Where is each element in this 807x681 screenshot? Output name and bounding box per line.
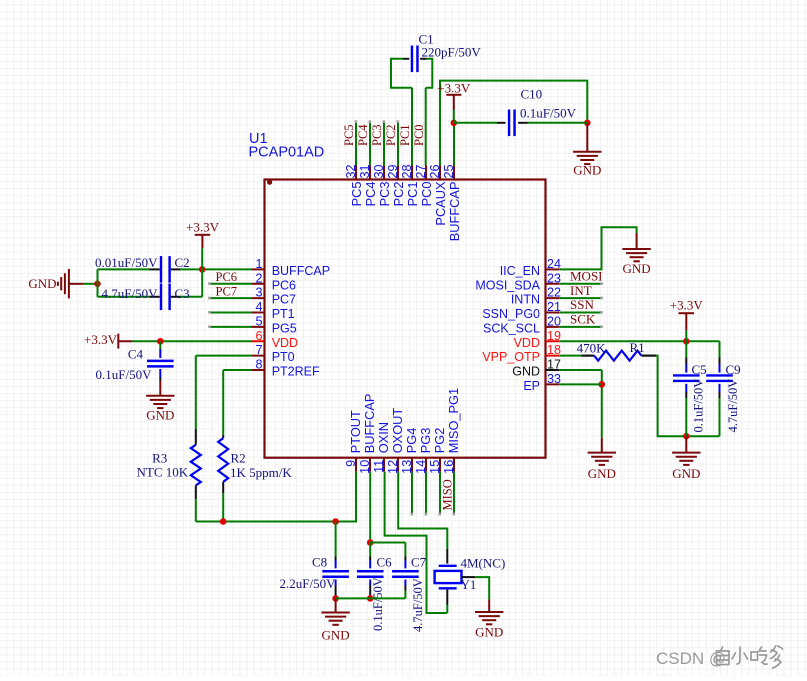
svg-text:18: 18: [547, 343, 561, 357]
svg-text:C7: C7: [411, 555, 427, 570]
svg-text:3: 3: [255, 286, 262, 300]
svg-text:VPP_OTP: VPP_OTP: [482, 350, 540, 364]
svg-text:PG4: PG4: [404, 428, 419, 454]
svg-text:SSN_PG0: SSN_PG0: [482, 307, 540, 321]
svg-text:GND: GND: [146, 408, 174, 423]
svg-text:PC2: PC2: [391, 182, 406, 207]
svg-text:0.1uF/50V: 0.1uF/50V: [96, 367, 153, 382]
svg-text:Y1: Y1: [461, 577, 477, 592]
svg-text:SCK_SCL: SCK_SCL: [483, 321, 540, 335]
svg-text:2.2uF/50V: 2.2uF/50V: [280, 576, 337, 591]
svg-text:GND: GND: [322, 628, 350, 643]
svg-text:26: 26: [428, 164, 442, 178]
svg-text:PTOUT: PTOUT: [348, 410, 363, 453]
svg-text:0.01uF/50V: 0.01uF/50V: [95, 255, 158, 270]
svg-text:C8: C8: [312, 555, 327, 570]
svg-text:PC1: PC1: [398, 124, 412, 146]
svg-text:4M(NC): 4M(NC): [461, 556, 506, 571]
svg-text:C4: C4: [128, 347, 144, 362]
svg-text:PG3: PG3: [418, 428, 433, 454]
svg-text:GND: GND: [573, 163, 601, 178]
svg-text:28: 28: [400, 164, 414, 178]
svg-text:VDD: VDD: [272, 336, 298, 350]
svg-text:R2: R2: [231, 450, 246, 465]
svg-text:IIC_EN: IIC_EN: [500, 264, 540, 278]
svg-text:PC6: PC6: [272, 278, 296, 292]
svg-text:GND: GND: [512, 365, 540, 379]
svg-text:PC2: PC2: [384, 124, 398, 146]
svg-text:0.1uF/50V: 0.1uF/50V: [692, 379, 706, 433]
svg-text:PT0: PT0: [272, 350, 295, 364]
svg-text:11: 11: [372, 460, 386, 473]
svg-text:PC4: PC4: [363, 182, 378, 207]
svg-text:VDD: VDD: [514, 336, 540, 350]
svg-text:31: 31: [358, 164, 372, 178]
svg-text:0.1uF/50V: 0.1uF/50V: [520, 106, 577, 121]
svg-text:MISO: MISO: [441, 479, 455, 510]
svg-text:PC0: PC0: [412, 124, 426, 146]
svg-text:0.1uF/50V: 0.1uF/50V: [371, 577, 385, 631]
svg-text:OXOUT: OXOUT: [390, 408, 405, 454]
svg-text:BUFFCAP: BUFFCAP: [362, 394, 377, 454]
svg-text:BUFFCAP: BUFFCAP: [447, 182, 462, 242]
svg-text:22: 22: [547, 286, 561, 300]
svg-text:GND: GND: [623, 261, 651, 276]
svg-text:25: 25: [442, 164, 456, 178]
svg-text:C9: C9: [726, 362, 741, 377]
svg-text:PT2REF: PT2REF: [272, 365, 320, 379]
svg-text:INT: INT: [570, 283, 592, 298]
svg-text:C10: C10: [521, 87, 543, 102]
svg-text:PC5: PC5: [349, 182, 364, 207]
svg-text:4.7uF/50V: 4.7uF/50V: [726, 379, 740, 433]
svg-text:EP: EP: [523, 379, 540, 393]
svg-text:+3.3V: +3.3V: [84, 332, 118, 347]
svg-text:+3.3V: +3.3V: [186, 219, 220, 234]
svg-text:GND: GND: [28, 276, 56, 291]
svg-text:INTN: INTN: [511, 293, 540, 307]
svg-text:+3.3V: +3.3V: [437, 81, 471, 96]
svg-text:MISO_PG1: MISO_PG1: [446, 388, 461, 453]
svg-text:9: 9: [344, 460, 358, 467]
svg-text:32: 32: [344, 164, 358, 178]
svg-text:C3: C3: [175, 286, 190, 301]
svg-text:PCAUX: PCAUX: [433, 181, 448, 226]
svg-text:GND: GND: [475, 625, 503, 640]
svg-text:SSN: SSN: [570, 297, 594, 312]
svg-text:5: 5: [255, 314, 262, 328]
svg-text:2: 2: [255, 271, 262, 285]
svg-text:19: 19: [547, 329, 561, 343]
svg-text:OXIN: OXIN: [376, 422, 391, 453]
svg-text:+3.3V: +3.3V: [670, 298, 704, 313]
svg-text:7: 7: [255, 343, 262, 357]
svg-text:33: 33: [547, 372, 561, 386]
svg-text:C5: C5: [692, 362, 707, 377]
svg-text:21: 21: [547, 300, 561, 314]
svg-text:1: 1: [255, 257, 262, 271]
svg-text:PC3: PC3: [370, 124, 384, 146]
svg-text:C6: C6: [377, 555, 393, 570]
svg-text:8: 8: [255, 358, 262, 372]
svg-text:MOSI: MOSI: [570, 268, 603, 283]
svg-text:4.7uF/50V: 4.7uF/50V: [411, 578, 425, 632]
svg-text:PC1: PC1: [405, 182, 420, 207]
svg-text:23: 23: [547, 271, 561, 285]
svg-text:MOSI_SDA: MOSI_SDA: [475, 278, 540, 292]
svg-text:470K: 470K: [577, 340, 607, 355]
svg-text:PT1: PT1: [272, 307, 295, 321]
svg-text:R3: R3: [152, 450, 167, 465]
svg-text:29: 29: [386, 164, 400, 178]
svg-text:NTC 10K: NTC 10K: [137, 465, 189, 480]
svg-text:1K 5ppm/K: 1K 5ppm/K: [230, 465, 292, 480]
svg-text:4.7uF/50V: 4.7uF/50V: [102, 286, 159, 301]
svg-text:20: 20: [547, 314, 561, 328]
svg-text:PG5: PG5: [272, 321, 297, 335]
svg-text:PCAP01AD: PCAP01AD: [249, 145, 325, 161]
svg-text:C2: C2: [175, 255, 190, 270]
svg-text:PC6: PC6: [216, 270, 238, 284]
svg-text:24: 24: [547, 257, 561, 271]
svg-text:PC0: PC0: [419, 182, 434, 207]
svg-text:4: 4: [255, 300, 262, 314]
svg-text:27: 27: [414, 164, 428, 178]
svg-text:SCK: SCK: [570, 312, 596, 327]
svg-text:PG2: PG2: [432, 428, 447, 454]
svg-text:R1: R1: [630, 340, 645, 355]
svg-text:GND: GND: [588, 466, 616, 481]
svg-text:30: 30: [372, 164, 386, 178]
svg-text:220pF/50V: 220pF/50V: [422, 45, 482, 60]
svg-text:BUFFCAP: BUFFCAP: [272, 264, 330, 278]
svg-text:PC7: PC7: [216, 285, 238, 299]
svg-text:GND: GND: [672, 466, 700, 481]
svg-text:PC3: PC3: [377, 182, 392, 207]
svg-text:PC5: PC5: [342, 124, 356, 146]
svg-text:6: 6: [255, 329, 262, 343]
svg-text:PC4: PC4: [356, 124, 370, 146]
svg-text:17: 17: [547, 358, 561, 372]
svg-text:CSDN @: CSDN @: [656, 649, 726, 668]
svg-text:PC7: PC7: [272, 293, 296, 307]
